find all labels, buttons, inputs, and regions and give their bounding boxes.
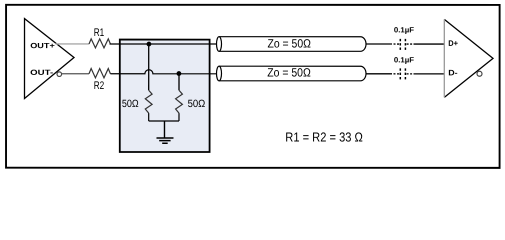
ground [156,138,173,143]
resistor R2 [89,69,110,78]
svg-text:OUT-: OUT- [30,68,54,77]
svg-text:D+: D+ [448,39,458,48]
svg-text:0.1µF: 0.1µF [394,55,415,64]
inversion bubble on OUT- [57,72,62,77]
label Zo = 50ohm top [268,36,311,50]
svg-text:0.1µF: 0.1µF [394,25,415,34]
junction node A [147,42,152,47]
svg-text:R1: R1 [94,27,105,39]
capacitor C1 [400,39,405,50]
resistor 50ohm right [176,74,183,121]
inversion bubble on receiver [477,71,482,76]
driver U1 [24,19,74,99]
label Zo = 50ohm bottom [267,65,311,79]
wire R2 to line2 with hop over resistor lead [110,70,216,74]
label R2 [94,80,105,92]
resistor R1 [89,39,110,48]
svg-text:R2: R2 [94,80,105,92]
note R1 = R2 = 33 ohm [285,129,363,144]
termination network box [120,40,210,152]
pin label D+ [448,39,458,48]
svg-text:Zo = 50Ω: Zo = 50Ω [268,36,311,50]
wire OUT- to R2 [62,73,89,75]
label 0.1uF bottom [394,55,415,64]
capacitor C2 [400,68,405,79]
pin label OUT+ [30,41,55,50]
wire T1 to C1 [366,43,399,45]
pin label D- [448,68,458,77]
transmission line T1 [217,37,367,52]
svg-text:R1 = R2 = 33 Ω: R1 = R2 = 33 Ω [285,129,363,144]
label R1 [94,27,105,39]
label 0.1uF top [394,25,415,34]
svg-text:50Ω: 50Ω [188,98,206,110]
transmission line T2 [217,66,367,81]
svg-text:OUT+: OUT+ [30,41,55,50]
ground bus wire [149,121,179,138]
junction node B [177,71,182,76]
svg-text:50Ω: 50Ω [122,98,139,110]
wire R1 to line1 [110,43,217,45]
border frame [6,5,500,168]
wire C2 to D- [407,73,444,75]
svg-text:D-: D- [448,68,458,77]
label 50ohm left [122,98,139,110]
pin label OUT- [30,68,54,77]
wire T2 to C2 [366,73,399,75]
label 50ohm right [188,98,206,110]
receiver U2 [444,19,493,97]
svg-text:Zo = 50Ω: Zo = 50Ω [267,65,311,79]
wire OUT+ to R1 [56,43,90,45]
wire C1 to D+ [407,43,444,45]
resistor 50ohm left [145,44,152,121]
